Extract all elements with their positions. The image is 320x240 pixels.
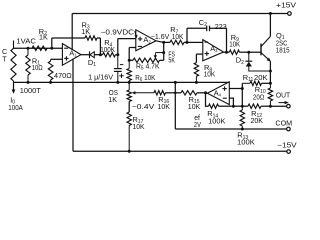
transistor Q1 (261, 36, 271, 61)
label -15V (277, 141, 297, 150)
svg-text:100K: 100K (100, 45, 115, 54)
label R8 (204, 63, 212, 73)
wire D2 anode to emitter (249, 67, 271, 72)
label R12 (251, 109, 262, 119)
resistor R14 (209, 104, 234, 108)
potentiometer OS wiper arrow (132, 91, 154, 94)
label C2 (199, 18, 207, 28)
svg-text:10K: 10K (172, 34, 184, 41)
label FS value (168, 58, 175, 65)
wire A4 inverting leg (229, 98, 233, 106)
wire A4 output (206, 92, 208, 94)
label ref 2V line1 (194, 115, 200, 122)
label COM (275, 119, 292, 128)
wire chain column (241, 83, 243, 106)
label +15V (276, 1, 296, 10)
label R3 value (81, 27, 90, 36)
capacitor C2 (207, 26, 210, 32)
label R1 (32, 56, 40, 66)
svg-text:10K: 10K (158, 104, 171, 111)
label R15 value (188, 104, 201, 111)
node R5 R6 junction (128, 59, 131, 62)
resistor R12 (242, 104, 270, 108)
node chain row junction (241, 105, 244, 108)
svg-text:COM: COM (275, 119, 292, 128)
wire OS to R17 (128, 102, 130, 113)
label OUT (276, 90, 291, 99)
node A3 inverting node (186, 41, 189, 44)
wire feedback row right (97, 38, 100, 55)
label R1 value (32, 63, 44, 72)
junction Q1 collector to +15V rail (269, 12, 272, 15)
label R4 value (100, 45, 115, 54)
label R2 (39, 27, 47, 37)
wire Q1 base (249, 51, 261, 53)
label R8 value (204, 71, 216, 78)
resistor R11 (242, 81, 270, 85)
svg-text:2SC: 2SC (276, 40, 288, 47)
wire 470 to A1 noninverting input (51, 58, 63, 60)
svg-text:1K: 1K (81, 27, 90, 36)
wire row to chain (233, 105, 242, 107)
node A4 output junction (204, 91, 207, 94)
label C1 plus (119, 74, 123, 78)
svg-text:10K: 10K (133, 124, 145, 131)
svg-text:1815: 1815 (276, 47, 290, 54)
label ref 2V line2 (194, 122, 201, 129)
label R15 (189, 95, 200, 105)
svg-text:5K: 5K (168, 58, 175, 65)
junction 470 ohm bottom (49, 81, 52, 84)
svg-text:20K: 20K (251, 118, 264, 125)
op-amp A2 (136, 30, 156, 51)
label R17 (133, 115, 144, 125)
label D1 (88, 58, 96, 68)
wire A1 V+ supply leg (71, 14, 73, 50)
resistor R3 (85, 36, 97, 40)
resistor R1 (26, 48, 30, 82)
svg-text:+15V: +15V (276, 1, 296, 10)
wire analog ground rail (14, 81, 230, 83)
resistor R15 (175, 91, 205, 95)
label 1000T (20, 86, 42, 95)
label R11 value (254, 75, 268, 82)
resistor R8 (194, 63, 198, 83)
label R4 (104, 38, 112, 48)
node Q1 base junction (247, 51, 250, 54)
svg-text:100A: 100A (8, 103, 23, 112)
label R9 (231, 33, 239, 43)
wire -15V bus (73, 150, 287, 152)
label R10 (255, 85, 266, 95)
resistor R4 (100, 53, 117, 57)
diode D2 (245, 52, 252, 66)
node D1/R3 junction (99, 53, 102, 56)
label R16 (158, 95, 169, 105)
potentiometer OS (127, 82, 131, 101)
label C (2, 47, 7, 56)
label R3 (82, 21, 90, 31)
resistor R9 (229, 50, 250, 54)
resistor R17 (127, 112, 131, 151)
label OS value (108, 95, 117, 104)
wire A1 output (81, 54, 90, 56)
resistor R10 (268, 83, 272, 106)
label R7 value (172, 34, 184, 41)
node R1 top junction (27, 47, 30, 50)
node R13 bottom junction (241, 128, 244, 131)
wire CT top to A1 input row (14, 47, 63, 49)
label D2 (236, 56, 244, 66)
label -0.4V (132, 104, 155, 111)
wire FS wiper (154, 53, 164, 59)
label OS (109, 88, 118, 97)
wire A3 output (224, 51, 230, 53)
junction C1 bottom (116, 81, 119, 84)
label R7 (170, 25, 178, 35)
label C1 minus (120, 64, 123, 66)
junction R8 bottom (195, 81, 198, 84)
capacitor C1 (114, 55, 122, 83)
wire C2 row right (210, 28, 227, 52)
wire A2 inverting input leg (129, 48, 136, 61)
svg-text:100K: 100K (237, 139, 255, 146)
terminal -15V (287, 150, 291, 154)
wire A4 output down-leg (206, 93, 209, 106)
label R12 value (251, 118, 264, 125)
svg-text:10K: 10K (188, 104, 201, 111)
svg-text:1K: 1K (108, 95, 117, 104)
wire FS riser to A2 output (163, 42, 165, 60)
label R14 value (208, 118, 226, 125)
label R17 value (133, 124, 145, 131)
node A3 output junction (225, 51, 228, 54)
svg-text:R6 10K: R6 10K (135, 75, 155, 83)
op-amp A3 (203, 40, 224, 61)
label 470 ohm (54, 71, 72, 80)
wire A4 plus input (229, 88, 242, 90)
wire COM rail (175, 128, 286, 130)
label R13 (237, 131, 248, 141)
svg-text:1 μ/16V: 1 μ/16V (88, 75, 113, 82)
svg-text:10K: 10K (204, 71, 216, 78)
node R11 emitter junction (269, 82, 272, 85)
wire Q1 emitter leg (269, 61, 271, 83)
wire A1 feedback up-leg (51, 38, 53, 48)
wire A2 output row (156, 41, 170, 43)
label 100A (8, 103, 23, 112)
wire C2 up leg (186, 28, 188, 42)
resistor R16 (154, 91, 175, 95)
label R16 value (158, 104, 171, 111)
wire R4 node to A2 plus input (118, 39, 136, 55)
junction R1 bottom (27, 81, 30, 84)
label -1.6V (151, 34, 170, 41)
label R5 (136, 64, 160, 72)
svg-text:20K: 20K (254, 75, 268, 82)
arrow -0.9VDC pointer (134, 31, 137, 38)
label R10 value (253, 94, 265, 101)
svg-text:1K: 1K (39, 33, 48, 42)
svg-text:10K: 10K (229, 42, 240, 49)
terminal +15V (288, 12, 292, 16)
label R13 value (237, 139, 255, 146)
current transformer CT winding (11, 41, 16, 83)
arrow OUT (279, 101, 289, 104)
wire A3 inverting input (187, 41, 203, 43)
svg-text:2V: 2V (194, 122, 201, 129)
label R2 value (39, 33, 48, 42)
label R6 (135, 75, 155, 83)
arrow I0 current (12, 82, 16, 93)
resistor R5 with FS section (129, 58, 164, 62)
node R17 bus junction (128, 150, 131, 153)
node D2 emitter junction (269, 70, 272, 73)
wire feedback row left (52, 37, 85, 39)
node A4 plus junction (241, 87, 244, 90)
label -0.9VDC (101, 30, 135, 37)
svg-text:−1.6V: −1.6V (151, 34, 170, 41)
svg-text:OUT: OUT (276, 90, 291, 99)
resistor R13 (240, 106, 244, 129)
diode D1 (90, 51, 101, 58)
terminal OUT (287, 104, 291, 108)
svg-text:1VAC: 1VAC (16, 37, 36, 46)
op-amp A1 (62, 44, 81, 66)
wire A3 noninverting leg (196, 54, 202, 63)
svg-text:−15V: −15V (277, 141, 297, 150)
label Q1 type line1 (276, 40, 288, 47)
node R14 feedback junction (232, 105, 235, 108)
svg-text:−0.9VDC: −0.9VDC (101, 30, 135, 37)
svg-text:20Ω: 20Ω (253, 94, 265, 101)
svg-text:470Ω: 470Ω (54, 71, 72, 80)
node A1 inverting input junction (50, 47, 53, 50)
wire Q1 collector leg (269, 14, 271, 37)
svg-text:10Ω: 10Ω (32, 63, 44, 72)
label R14 (207, 109, 218, 119)
label 1VAC (16, 37, 36, 46)
label R11 (243, 73, 254, 83)
node A2 output junction (162, 41, 165, 44)
svg-text:223: 223 (215, 24, 227, 31)
node ground-leg row junction (174, 92, 177, 95)
junction ground down-leg (174, 81, 177, 84)
svg-text:R5 4.7K: R5 4.7K (136, 64, 160, 72)
resistor R2 (32, 46, 47, 50)
svg-text:−0.4V: −0.4V (132, 104, 155, 111)
label C2 value (215, 24, 227, 31)
node FS top junction (162, 51, 165, 54)
label FS (168, 52, 175, 59)
svg-text:T: T (2, 55, 7, 64)
label T (2, 55, 7, 64)
resistor 470 ohm (48, 59, 53, 82)
wire C2 row left (187, 27, 207, 29)
svg-text:100K: 100K (208, 118, 226, 125)
terminal COM (287, 127, 291, 131)
label I0 (10, 95, 15, 105)
label Q1 type line2 (276, 47, 290, 54)
label C1 value (88, 75, 113, 82)
svg-text:1000T: 1000T (20, 86, 42, 95)
wire ground down-leg (174, 82, 176, 129)
resistor R6 (127, 60, 131, 82)
wire A1 V- supply leg (72, 59, 74, 152)
node R4 output junction (116, 53, 119, 56)
resistor R7 (170, 40, 187, 44)
node OUT junction (269, 105, 272, 108)
op-amp A4 (207, 82, 229, 105)
wire to OUT terminal (270, 105, 286, 107)
label Q1 (276, 31, 285, 41)
junction R6/OS column (128, 81, 131, 84)
label R9 value (229, 42, 240, 49)
wire +15V top rail (72, 13, 287, 15)
